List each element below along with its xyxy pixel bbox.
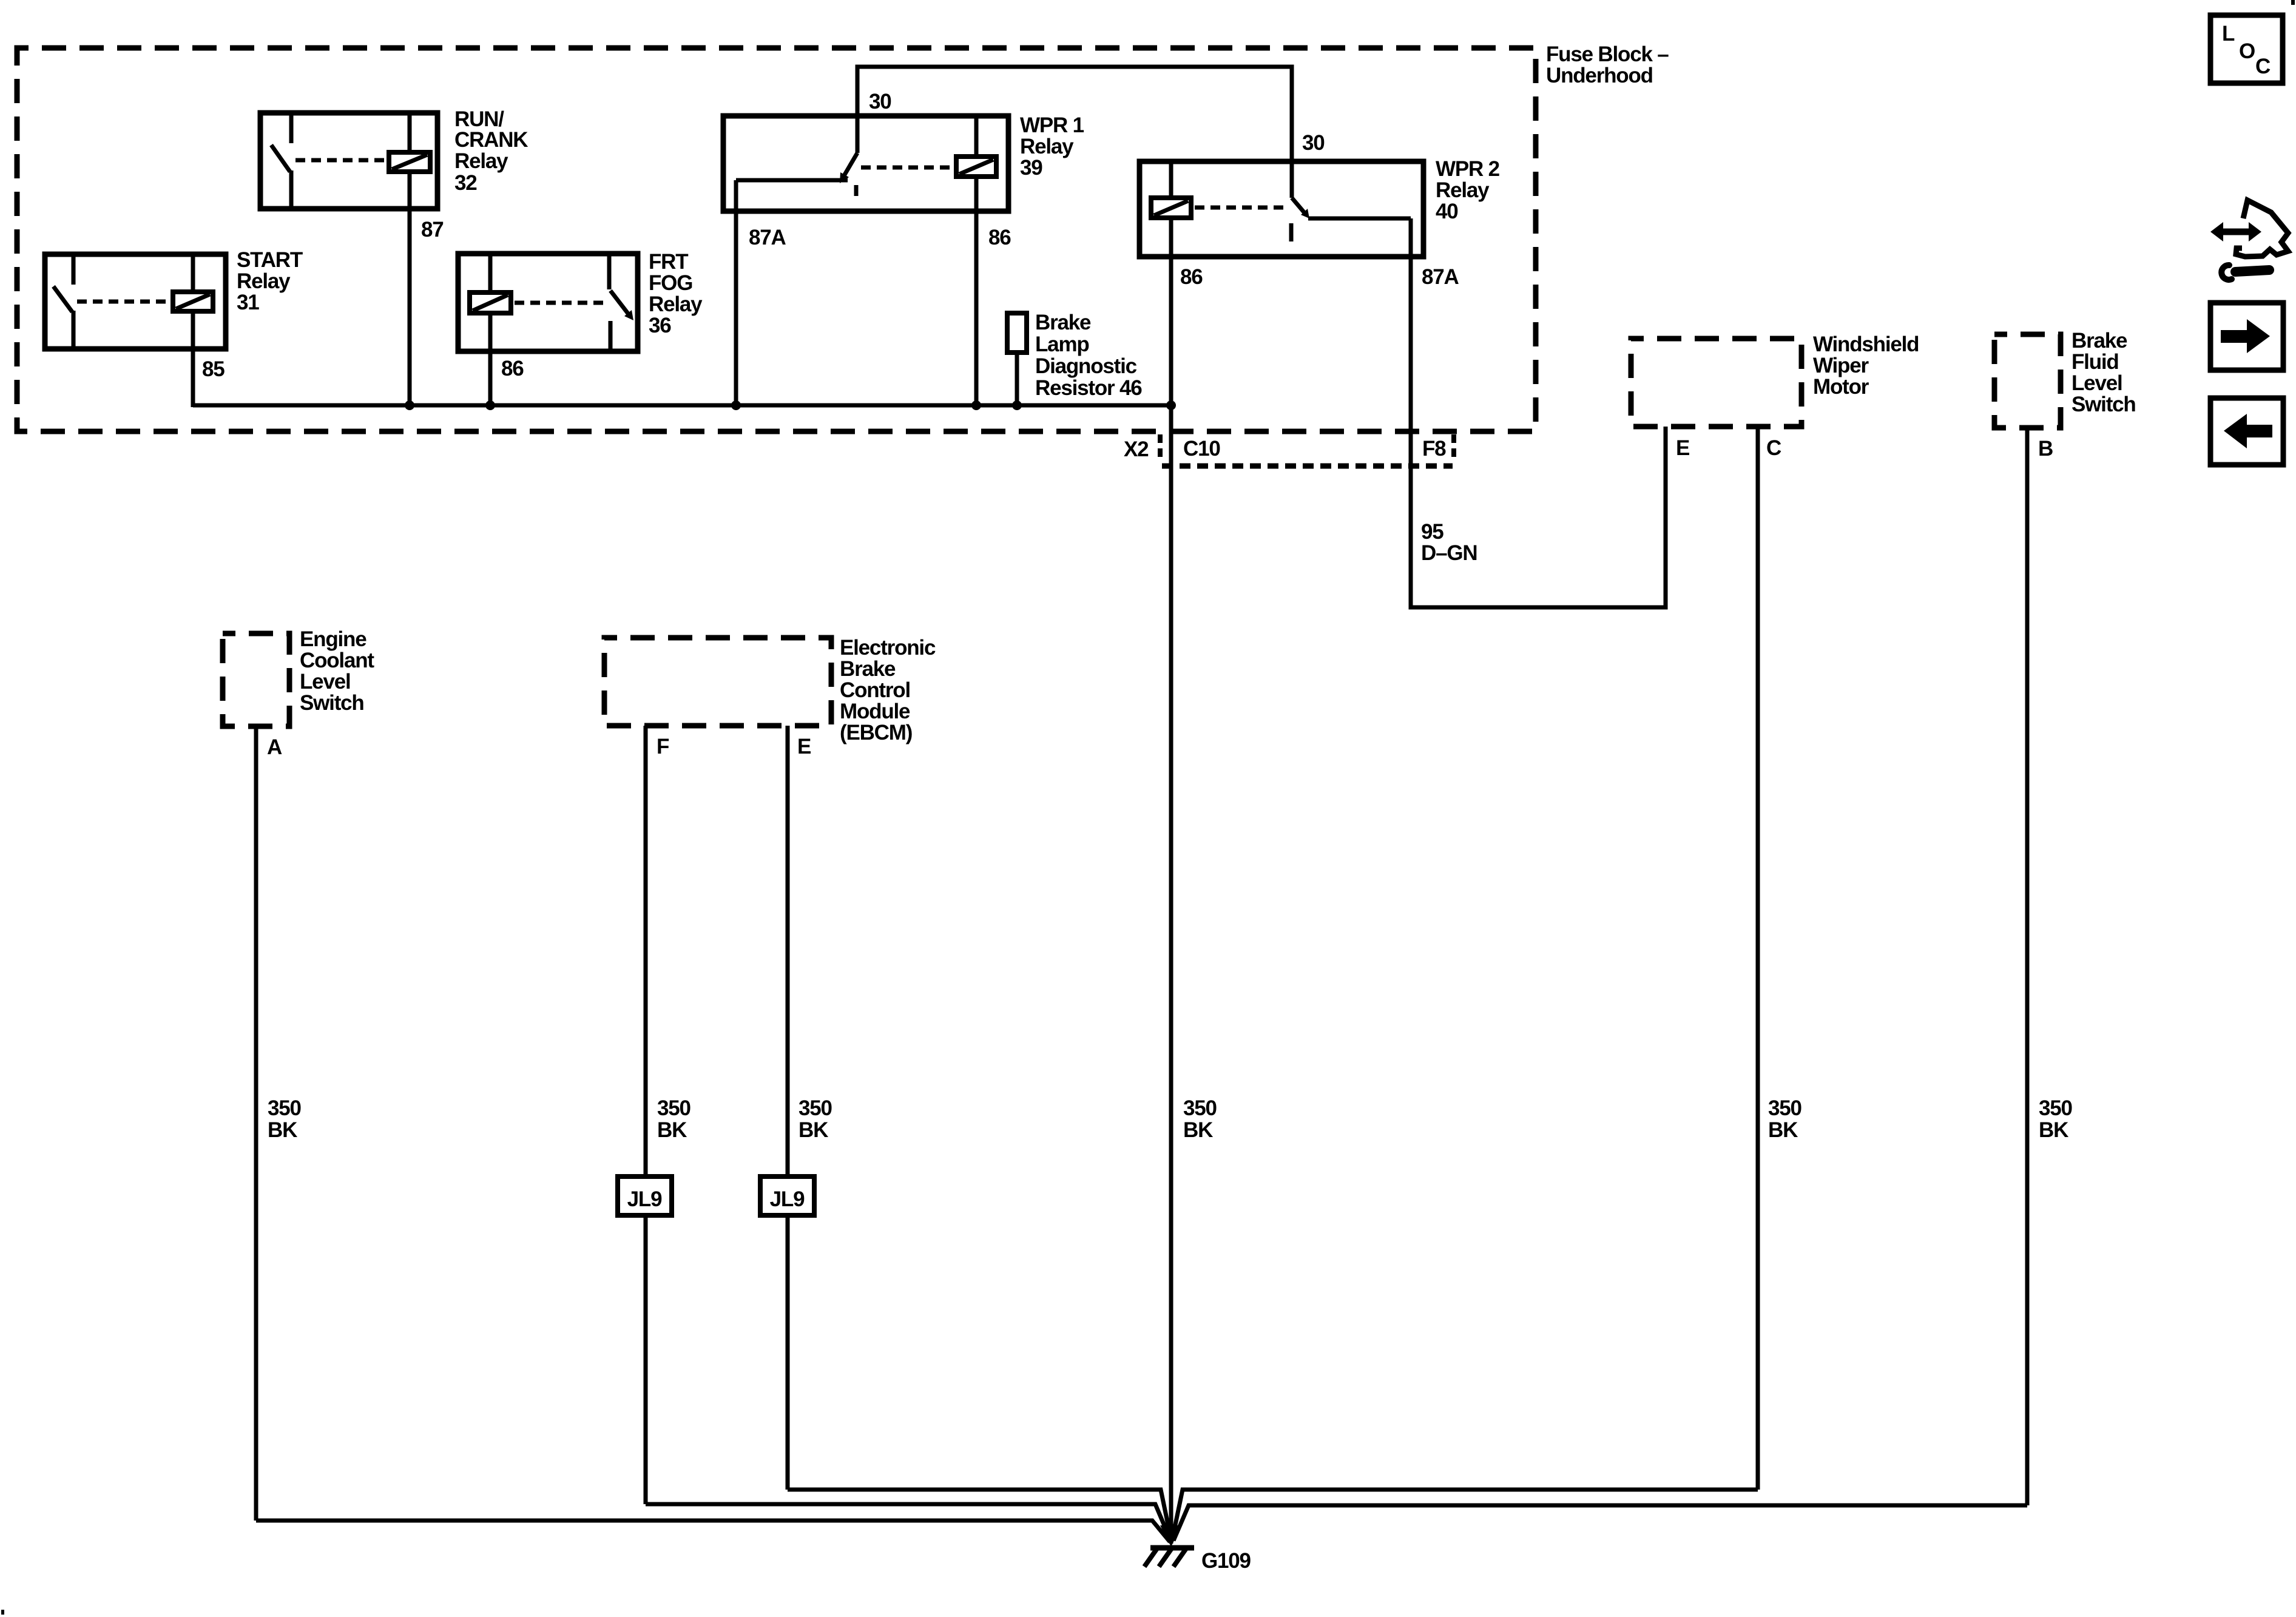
fuse block underhood dashed boundary — [17, 48, 1536, 431]
svg-text:31: 31 — [237, 291, 259, 314]
svg-text:BK: BK — [657, 1118, 687, 1142]
svg-text:86: 86 — [1180, 265, 1203, 289]
svg-text:Relay: Relay — [454, 149, 508, 173]
svg-text:87A: 87A — [1422, 265, 1459, 289]
svg-text:FOG: FOG — [649, 271, 692, 295]
svg-text:Engine: Engine — [300, 627, 366, 651]
svg-text:E: E — [797, 735, 811, 758]
icon right-arrow box — [2210, 303, 2283, 370]
junction: WPR2 86 on bus — [1166, 400, 1176, 410]
EBCM dashed box — [604, 638, 831, 726]
wire: pin C horizontal to ground merge — [1172, 1490, 1758, 1539]
wire: brake fluid switch pin B down — [2025, 428, 2030, 1505]
wire: coolant switch pin A down — [254, 726, 258, 1521]
svg-text:C10: C10 — [1183, 437, 1220, 461]
svg-text:32: 32 — [454, 171, 477, 195]
svg-text:X2: X2 — [1124, 437, 1149, 461]
wire: WPR1 pin 87A down to bus — [734, 180, 738, 405]
wire: ground bus inside fuse block — [193, 403, 1171, 408]
junction: WPR1 87A on bus — [731, 400, 741, 410]
svg-text:Fuse Block –: Fuse Block – — [1546, 42, 1669, 66]
svg-text:87: 87 — [421, 218, 444, 241]
svg-text:A: A — [267, 735, 282, 759]
relay START 31 — [45, 254, 226, 349]
svg-text:350: 350 — [268, 1096, 302, 1120]
svg-text:START: START — [237, 248, 303, 272]
svg-text:86: 86 — [501, 357, 524, 380]
svg-text:L: L — [2222, 22, 2235, 46]
svg-text:Motor: Motor — [1813, 375, 1869, 399]
svg-text:BK: BK — [1183, 1118, 1213, 1142]
wire: top rail pin30 WPR1 to pin30 WPR2 — [857, 67, 1292, 198]
relay WPR 1 39 — [723, 116, 1008, 211]
wire: pin F horizontal to ground merge — [646, 1504, 1170, 1540]
svg-text:Switch: Switch — [300, 691, 364, 715]
svg-text:350: 350 — [799, 1096, 832, 1120]
svg-text:30: 30 — [869, 90, 891, 113]
svg-text:JL9: JL9 — [627, 1187, 662, 1211]
svg-text:F: F — [657, 735, 669, 758]
svg-text:Underhood: Underhood — [1546, 64, 1653, 87]
relay RUN/CRANK 32 — [260, 113, 437, 209]
ground G109 symbol — [1144, 1548, 1194, 1567]
svg-text:BK: BK — [268, 1118, 297, 1142]
brake lamp diagnostic resistor 46 — [1007, 313, 1027, 405]
svg-text:B: B — [2038, 437, 2053, 461]
svg-text:BK: BK — [1768, 1118, 1798, 1142]
svg-text:Brake: Brake — [1035, 311, 1091, 334]
splice JL9 (left) — [618, 1176, 672, 1215]
svg-text:350: 350 — [2039, 1096, 2073, 1120]
windshield wiper motor dashed box — [1631, 339, 1801, 427]
svg-text:C: C — [1766, 436, 1781, 460]
engine coolant level switch dashed box — [223, 633, 289, 726]
svg-text:Coolant: Coolant — [300, 649, 374, 672]
svg-text:FRT: FRT — [649, 250, 688, 274]
wire: pin E horizontal to ground merge — [788, 1490, 1171, 1539]
junction: FRT FOG 86 on bus — [485, 400, 495, 410]
connector X2 C10 F8 strip — [1158, 434, 1163, 461]
wire: WPR2 86 / main ground wire down through connector C10 — [1169, 218, 1173, 1544]
svg-text:Level: Level — [2071, 371, 2122, 395]
icon hood outline with double arrow and wrench — [2210, 200, 2288, 280]
svg-text:350: 350 — [1183, 1096, 1217, 1120]
svg-text:350: 350 — [1768, 1096, 1802, 1120]
wire: WPR2 87A 95 D-GN to wiper motor pin E — [1411, 218, 1666, 607]
brake fluid level switch dashed box — [1994, 334, 2061, 428]
svg-text:Windshield: Windshield — [1813, 333, 1919, 356]
wire: FRT FOG pin 86 down to bus — [488, 313, 493, 405]
wire: START pin 85 down to bus — [191, 311, 195, 407]
svg-text:Diagnostic: Diagnostic — [1035, 354, 1137, 378]
svg-text:87A: 87A — [749, 226, 786, 249]
svg-text:WPR 1: WPR 1 — [1020, 113, 1084, 137]
svg-text:95: 95 — [1421, 520, 1443, 544]
svg-text:(EBCM): (EBCM) — [840, 721, 912, 744]
svg-text:Fluid: Fluid — [2071, 350, 2119, 374]
page corner marks — [2291, 0, 2295, 5]
junction: WPR1 86 on bus — [971, 400, 981, 410]
svg-text:Control: Control — [840, 678, 910, 702]
wire: WPR1 pin 86 down to bus — [974, 177, 979, 405]
svg-text:Relay: Relay — [649, 292, 703, 316]
ground arrowhead — [1160, 1525, 1182, 1547]
svg-text:WPR 2: WPR 2 — [1436, 157, 1500, 181]
wire: EBCM pin F down — [644, 726, 648, 1176]
svg-text:G109: G109 — [1201, 1549, 1251, 1573]
wire: wiper motor pin C down — [1756, 427, 1760, 1490]
svg-text:Switch: Switch — [2071, 393, 2136, 416]
svg-text:Relay: Relay — [1436, 178, 1490, 202]
svg-text:Lamp: Lamp — [1035, 333, 1089, 356]
svg-text:Relay: Relay — [1020, 135, 1074, 158]
icon LOC box — [2210, 15, 2283, 83]
wire: pin A horizontal to ground merge — [256, 1521, 1170, 1542]
svg-text:40: 40 — [1436, 200, 1458, 223]
svg-text:Wiper: Wiper — [1813, 354, 1869, 377]
svg-text:O: O — [2239, 39, 2255, 63]
junction: RUN/CRANK 87 on bus — [405, 400, 414, 410]
svg-text:36: 36 — [649, 314, 671, 337]
svg-text:Module: Module — [840, 700, 910, 723]
svg-text:Brake: Brake — [2071, 329, 2127, 353]
svg-text:Electronic: Electronic — [840, 636, 936, 660]
svg-text:BK: BK — [799, 1118, 828, 1142]
icon left-arrow box — [2210, 398, 2283, 465]
svg-text:D–GN: D–GN — [1421, 541, 1477, 565]
svg-text:C: C — [2255, 55, 2271, 78]
svg-text:JL9: JL9 — [770, 1187, 805, 1211]
svg-text:86: 86 — [988, 226, 1011, 249]
wire: pin B horizontal to ground merge — [1173, 1505, 2027, 1541]
svg-text:350: 350 — [657, 1096, 691, 1120]
splice JL9 (right) — [760, 1176, 814, 1215]
svg-text:E: E — [1676, 436, 1689, 460]
junction: resistor 46 on bus — [1012, 400, 1022, 410]
svg-text:85: 85 — [202, 357, 225, 381]
svg-text:CRANK: CRANK — [454, 128, 528, 152]
svg-text:BK: BK — [2039, 1118, 2068, 1142]
relay WPR 2 40 — [1140, 161, 1423, 257]
relay FRT FOG 36 — [458, 254, 638, 351]
svg-text:Relay: Relay — [237, 269, 291, 293]
wire: RUN/CRANK pin 87 down to bus — [408, 172, 412, 405]
svg-text:Level: Level — [300, 670, 351, 694]
wire: EBCM pin E down — [786, 726, 790, 1176]
svg-text:F8: F8 — [1422, 437, 1446, 461]
svg-text:Resistor 46: Resistor 46 — [1035, 376, 1142, 400]
svg-text:30: 30 — [1302, 131, 1325, 155]
svg-text:39: 39 — [1020, 156, 1042, 180]
svg-text:Brake: Brake — [840, 657, 896, 681]
